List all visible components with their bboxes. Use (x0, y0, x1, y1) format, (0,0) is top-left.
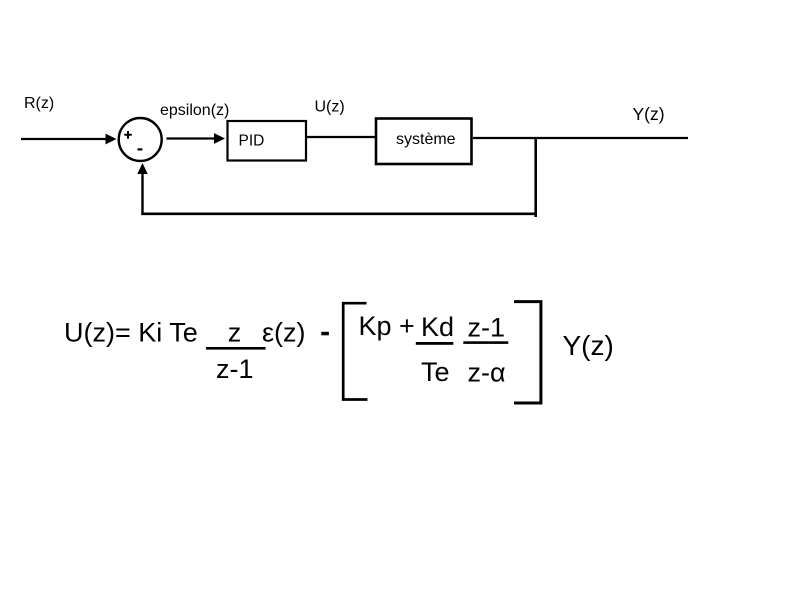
formula fraction bar z over z-1 (206, 347, 266, 350)
arrowhead into PID (214, 133, 225, 144)
svg-text:U(z)= Ki Te: U(z)= Ki Te (64, 318, 198, 348)
wire summing junction to PID (167, 137, 216, 139)
svg-text:Kp +: Kp + (359, 311, 415, 341)
svg-text:z: z (228, 318, 242, 348)
right bracket (514, 302, 541, 403)
svg-text:PID: PID (239, 133, 265, 150)
arrowhead into summing junction bottom (137, 163, 147, 174)
svg-text:R(z): R(z) (24, 95, 54, 112)
formula fraction bar z-1 over z-alpha (463, 341, 508, 344)
wire input R(z) to summing junction (21, 138, 106, 140)
plus sign (124, 131, 132, 139)
svg-text:epsilon(z): epsilon(z) (160, 102, 229, 119)
block systeme (376, 119, 472, 165)
wire PID to systeme (307, 136, 376, 138)
formula minus operator (321, 332, 329, 336)
wire feedback horizontal (141, 213, 537, 216)
wire systeme to output Y(z) (473, 137, 688, 139)
svg-text:z-α: z-α (468, 358, 506, 388)
svg-text:Y(z): Y(z) (563, 330, 614, 361)
left bracket (343, 303, 367, 399)
svg-text:Kd: Kd (421, 312, 454, 342)
summing junction (119, 118, 162, 161)
svg-text:U(z): U(z) (315, 99, 345, 116)
svg-text:z-1: z-1 (468, 313, 506, 343)
svg-text:système: système (396, 131, 456, 148)
svg-text:Y(z): Y(z) (633, 104, 665, 124)
block PID (228, 121, 307, 161)
wire feedback drop from output junction (534, 138, 537, 217)
svg-text:Te: Te (421, 357, 450, 387)
arrowhead into summing junction (106, 134, 117, 145)
svg-text:z-1: z-1 (216, 354, 254, 384)
wire feedback rise to summing junction (141, 172, 143, 215)
minus sign (138, 148, 143, 150)
formula fraction bar Kd over Te (416, 342, 454, 345)
svg-text:ε(z): ε(z) (262, 318, 306, 348)
